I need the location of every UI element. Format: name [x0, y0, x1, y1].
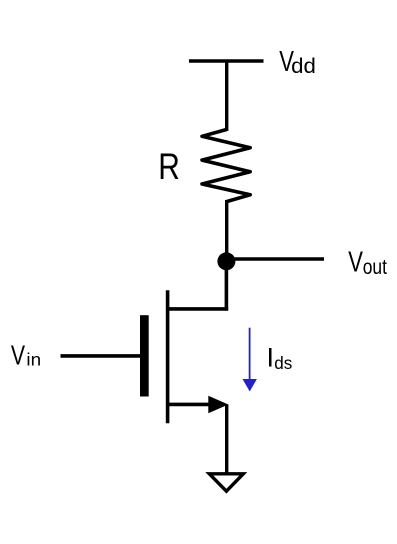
svg-text:dd: dd — [291, 53, 316, 77]
wire source to ground — [225, 404, 228, 474]
svg-text:ds: ds — [274, 352, 292, 373]
wire Vdd rail — [189, 59, 264, 62]
svg-text:V: V — [11, 340, 26, 372]
label Vdd — [279, 46, 316, 78]
svg-text:in: in — [26, 349, 41, 369]
transistor M1 source lead — [166, 403, 214, 407]
wire Vin to gate — [61, 354, 141, 358]
svg-text:V: V — [348, 247, 363, 279]
current arrow Ids line — [249, 328, 251, 381]
transistor M1 gate bar — [140, 315, 149, 396]
wire resistor to node — [225, 200, 228, 262]
transistor M1 drain lead — [166, 307, 228, 311]
svg-text:out: out — [363, 256, 388, 279]
transistor M1 channel — [166, 290, 170, 423]
label Ids — [267, 342, 293, 373]
label Vout — [348, 247, 387, 280]
svg-text:I: I — [267, 342, 275, 372]
wire Vdd rail to resistor — [225, 61, 228, 131]
wire node to drain — [225, 258, 229, 311]
node output junction dot — [217, 252, 235, 270]
current arrow Ids head — [243, 379, 257, 392]
ground symbol — [209, 474, 243, 491]
transistor M1 source arrowhead — [208, 396, 228, 414]
resistor R — [202, 130, 250, 202]
wire output to Vout — [227, 257, 324, 260]
label Vin — [11, 340, 41, 372]
svg-text:R: R — [158, 147, 180, 188]
